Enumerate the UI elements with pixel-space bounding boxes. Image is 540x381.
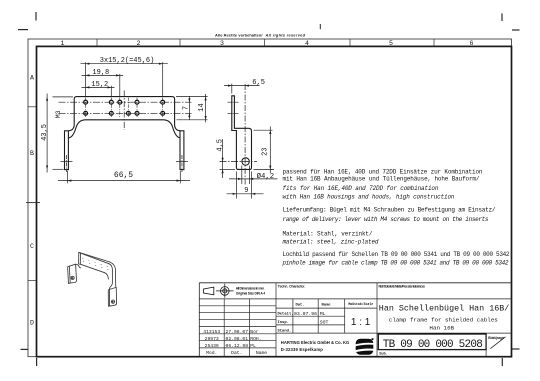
svg-text:pinhole image for cable clamp: pinhole image for cable clamp TB 09 00 0… [282, 260, 509, 267]
svg-text:D-32339 Espelkamp: D-32339 Espelkamp [281, 347, 323, 352]
horizontal centerline hole [220, 161, 258, 163]
dim 6,5 [231, 84, 233, 94]
trim mark top-right horizontal [512, 29, 520, 31]
revision table columns [223, 299, 225, 356]
svg-text:Stand.: Stand. [278, 328, 292, 333]
svg-text:Sub.: Sub. [379, 351, 386, 355]
middle sub-table [276, 307, 377, 309]
svg-text:4,5: 4,5 [217, 139, 225, 152]
dim 3x15,2(=45,6) [85, 62, 87, 97]
svg-text:TB 09 00 000 5208: TB 09 00 000 5208 [383, 339, 483, 351]
svg-text:Han 16B: Han 16B [429, 324, 454, 331]
outer border [28, 39, 512, 357]
svg-text:1 : 1: 1 : 1 [351, 317, 371, 328]
trim mark top-left vertical [35, 12, 37, 21]
dim 66,5 [67, 171, 69, 184]
svg-text:2: 2 [137, 40, 141, 47]
dimensions front view [46, 62, 208, 183]
dim 7 [188, 96, 190, 120]
svg-text:All rights reserved: All rights reserved [265, 32, 306, 37]
centerline hole row top [59, 101, 192, 103]
svg-text:Mod.: Mod. [206, 350, 217, 356]
trim mark bottom-right horizontal [512, 348, 520, 350]
svg-text:Material: Stahl, verzinkt/: Material: Stahl, verzinkt/ [283, 231, 373, 238]
svg-text:SOT: SOT [320, 319, 329, 325]
HARTING logo [355, 338, 374, 355]
iso left wing curve [76, 264, 81, 268]
iso bar left end face [79, 252, 81, 264]
svg-text:7: 7 [182, 106, 190, 110]
svg-text:Name: Name [256, 350, 267, 356]
iso right wing inner edge [109, 264, 113, 290]
svg-text:Han Schellenbügel Han 16B/: Han Schellenbügel Han 16B/ [379, 304, 510, 314]
hole in side view [242, 158, 249, 165]
part number box [378, 334, 486, 350]
svg-text:M3: M3 [55, 110, 62, 118]
right leg [180, 131, 184, 170]
fold mark top center [319, 24, 321, 29]
svg-text:range of delivery: lever with: range of delivery: lever with M4 screws … [283, 216, 489, 223]
iso bar bottom front edge [80, 264, 104, 273]
zone tick 2|3 [179, 39, 181, 46]
svg-text:Insp.: Insp. [278, 321, 289, 325]
svg-text:14: 14 [198, 103, 206, 111]
svg-text:1: 1 [61, 40, 65, 47]
svg-text:66,5: 66,5 [114, 171, 133, 180]
title block outline [198, 283, 200, 357]
svg-text:23: 23 [262, 147, 270, 155]
svg-text:material: steel, zinc-plated: material: steel, zinc-plated [283, 239, 379, 246]
svg-text:clamp frame for shielded cable: clamp frame for shielded cables [389, 316, 498, 323]
trim mark bottom-right vertical [501, 358, 503, 366]
left leg hole centerline [61, 161, 73, 163]
svg-text:C: C [30, 243, 34, 250]
holes M3 [84, 100, 165, 115]
iso left tab side face [68, 266, 71, 283]
svg-text:All Dimensions in mm: All Dimensions in mm [236, 286, 264, 290]
svg-text:passend für Han 16E, 40D und 7: passend für Han 16E, 40D und 72DD Einsät… [283, 168, 483, 175]
svg-text:4: 4 [305, 40, 309, 47]
svg-text:19,8: 19,8 [92, 69, 109, 77]
iso left tab hole [71, 276, 74, 279]
iso right wing outer edge [110, 262, 116, 288]
centerline hole row bottom [59, 112, 192, 114]
svg-text:5: 5 [389, 40, 393, 47]
svg-text:ML: ML [320, 311, 326, 317]
row marks [228, 101, 239, 103]
trim mark top-right vertical [501, 14, 503, 22]
centerline mid vertical [123, 91, 125, 131]
dim 23 [254, 129, 273, 131]
iso bar holes [82, 258, 108, 270]
iso left tab [69, 264, 76, 283]
svg-text:PL: PL [250, 343, 256, 349]
svg-text:9: 9 [244, 187, 248, 195]
bracket inner outline [69, 120, 180, 138]
dim 19,8 [119, 74, 121, 97]
svg-text:Dat.: Dat. [295, 303, 304, 307]
iso cutout curve right [105, 273, 109, 279]
right leg hole centerline [176, 161, 188, 163]
svg-text:D: D [30, 320, 34, 327]
svg-text:29973: 29973 [205, 336, 219, 342]
svg-text:HARTING Electric GmbH & Co. KG: HARTING Electric GmbH & Co. KG [281, 340, 350, 345]
zone tick 3|4 [264, 39, 266, 46]
inner border [37, 46, 512, 356]
svg-text:Name: Name [321, 303, 331, 307]
svg-text:15,2: 15,2 [91, 81, 108, 89]
vertical centerline side view [244, 84, 246, 186]
svg-text:mit Han 16B Anbaugehäuse und T: mit Han 16B Anbaugehäuse und Tüllengehäu… [283, 175, 480, 182]
revision table texts [203, 329, 267, 356]
trim mark bottom-left horizontal [21, 348, 29, 350]
svg-text:HARTING: HARTING [357, 345, 371, 349]
svg-text:with Han 16B housings and hood: with Han 16B housings and hoods, high co… [283, 193, 455, 200]
svg-text:03.07.96: 03.07.96 [294, 311, 317, 317]
svg-text:25439: 25439 [205, 343, 219, 349]
zone tick A|B [28, 106, 37, 108]
revision table rows [199, 305, 276, 307]
svg-text:A: A [30, 75, 34, 82]
dim 9 [235, 172, 237, 199]
middle table texts [278, 302, 374, 333]
zone tick 5|6 [433, 39, 435, 46]
svg-text:fits for Han 16E,40D and 72DD: fits for Han 16E,40D and 72DD for combin… [283, 185, 439, 192]
zone numbers [30, 40, 474, 327]
svg-text:Alle Rechte vorbehalten/: Alle Rechte vorbehalten/ [215, 32, 263, 37]
svg-text:02.08.01: 02.08.01 [226, 336, 249, 342]
zone tick 4|5 [349, 39, 351, 46]
svg-text:Ø4,2: Ø4,2 [257, 172, 275, 181]
svg-text:B: B [30, 150, 34, 157]
svg-text:Techn. Character.: Techn. Character. [278, 285, 306, 289]
bracket outer outline [69, 97, 180, 131]
svg-text:Maßstab/Scale: Maßstab/Scale [348, 302, 373, 306]
svg-text:3x15,2(=45,6): 3x15,2(=45,6) [100, 57, 155, 65]
dim 4,5 [220, 168, 236, 170]
iso right tab [110, 287, 117, 306]
hole column centerlines [86, 98, 163, 119]
svg-text:Detail.: Detail. [278, 311, 294, 316]
svg-text:6: 6 [470, 40, 474, 47]
left leg [65, 131, 69, 170]
svg-text:413153: 413153 [203, 329, 220, 335]
iso bar top front edge [81, 253, 109, 264]
side profile outline [232, 96, 252, 170]
svg-text:Lochbild passend für Schellen: Lochbild passend für Schellen TB 09 00 0… [283, 251, 510, 258]
dim 43,5 [53, 96, 74, 98]
zone tick 1|2 [96, 39, 98, 46]
iso right tab hole [111, 300, 114, 303]
centering mark left [26, 202, 40, 204]
svg-text:Dat.: Dat. [231, 350, 242, 356]
iso bar top back edge [79, 252, 110, 262]
svg-text:3: 3 [220, 40, 224, 47]
dim 15,2 [110, 86, 112, 97]
svg-text:6,5: 6,5 [252, 79, 265, 87]
trim mark bottom-left vertical [36, 358, 38, 366]
svg-text:ROH.: ROH. [250, 336, 261, 342]
trim mark top-left horizontal [18, 29, 28, 31]
projection symbol [204, 284, 234, 298]
svg-text:43,5: 43,5 [41, 124, 49, 141]
zone tick C|D [28, 279, 37, 281]
svg-text:27.08.07: 27.08.07 [226, 329, 249, 335]
dim 14 [176, 96, 208, 98]
svg-text:06.12.98: 06.12.98 [226, 343, 249, 349]
iso right tab side [108, 289, 110, 306]
dim diameter 4,2 [241, 166, 243, 185]
svg-text:Lieferumfang: Bügel mit M4 Sch: Lieferumfang: Bügel mit M4 Schrauben zu … [283, 207, 496, 214]
svg-text:Nicht tolerierte Maße/Free siz: Nicht tolerierte Maße/Free size toleranc… [379, 285, 426, 289]
svg-text:Bor: Bor [250, 329, 259, 335]
svg-text:Original Size DIN A 4: Original Size DIN A 4 [236, 292, 266, 296]
